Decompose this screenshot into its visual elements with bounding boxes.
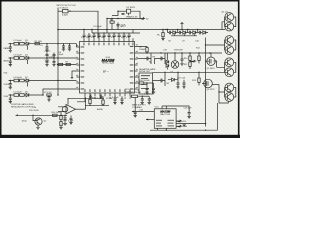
stage1 input cap C11 <box>9 44 12 51</box>
stage3 inductor L4a <box>14 79 19 82</box>
wire bus to P1 <box>210 53 212 57</box>
IC U1 inner pin labels top <box>83 43 133 46</box>
pair1 output link <box>234 17 236 27</box>
IC U2 right pin 1 arrow <box>176 120 181 122</box>
stage4 ground <box>9 102 12 104</box>
bottom main wire <box>16 114 68 116</box>
stage1 series resistor <box>35 43 39 45</box>
svg-text:C22 C23: C22 C23 <box>177 78 186 80</box>
panel box <box>139 73 153 94</box>
R20b out wire <box>144 82 154 84</box>
stage3 wire row <box>9 80 77 82</box>
stage3 drop <box>26 82 28 86</box>
stage1 mid caps junctions <box>63 43 70 44</box>
stage1 diode D3 <box>26 42 29 45</box>
svg-text:R19 100kΩ: R19 100kΩ <box>139 80 150 82</box>
stage1 mid caps b ground <box>68 49 71 51</box>
wire Q3 Q4 bases <box>206 40 228 50</box>
arrow wire into U2 pin2 <box>146 119 155 121</box>
below resistor RD <box>102 100 104 104</box>
svg-text:VGH 28V: VGH 28V <box>174 50 183 52</box>
svg-text:DRIVE OUT: DRIVE OUT <box>139 71 151 73</box>
svg-text:0.22µF: 0.22µF <box>112 97 119 99</box>
below cluster right caps <box>141 96 144 102</box>
arrow head left 2 <box>146 119 148 121</box>
input rail vertical <box>57 30 59 96</box>
resistor R20b inline <box>139 82 144 84</box>
junction pair4 <box>218 91 219 92</box>
wire inductor to LX node <box>68 11 98 22</box>
cap grid C7 <box>53 53 56 58</box>
transistor Q1 <box>225 13 234 22</box>
IC U1 outside pin numbers right <box>136 44 138 87</box>
cap grid C6 <box>46 53 49 58</box>
wire D8 <box>168 72 178 79</box>
svg-text:R20 100kΩ: R20 100kΩ <box>131 92 142 94</box>
svg-text:R1 10Ω: R1 10Ω <box>35 41 43 43</box>
VCC ground <box>47 100 50 102</box>
svg-text:TO PANEL: TO PANEL <box>132 106 143 109</box>
svg-text:REGULATOR OUTPUT: REGULATOR OUTPUT <box>11 105 34 108</box>
below horizontal link <box>85 104 109 106</box>
panel box left stubs <box>138 77 139 90</box>
stage2 input cap C12 <box>9 58 12 65</box>
wire from LX up to diode <box>112 11 118 15</box>
U2 right cap <box>188 110 191 117</box>
U2 top rail to cap <box>162 106 189 110</box>
wire P2 to pair4 link <box>212 84 219 86</box>
divider cap <box>70 116 73 123</box>
svg-text:R15 200Ω: R15 200Ω <box>29 110 39 112</box>
corner L wire <box>72 71 76 78</box>
IC U1 outside pin numbers left <box>76 45 78 88</box>
return wire vertical <box>205 38 207 127</box>
below cap CC2 <box>121 96 124 102</box>
bottom cap C25 <box>64 115 67 123</box>
stage1 out caps C15 C16 <box>46 44 49 50</box>
inline resistor RF2 <box>66 63 70 65</box>
svg-text:Q1 Q2: Q1 Q2 <box>222 12 229 14</box>
inductor L1 <box>63 10 69 13</box>
top bus resistor wires <box>162 30 164 39</box>
bottom wire start arrow <box>16 114 18 116</box>
wire input down <box>57 8 59 30</box>
stage4 junction <box>10 94 11 95</box>
boost diode D2 <box>127 9 131 15</box>
IC U2 right pin 3 arrow <box>176 125 181 127</box>
svg-text:100kΩ: 100kΩ <box>139 49 146 51</box>
transistor Q5 <box>225 58 234 67</box>
capacitor C4 <box>117 25 120 26</box>
stage3 input cap C13 <box>9 81 12 88</box>
cap CT10 <box>128 33 131 38</box>
wire LX down to IC <box>97 22 99 38</box>
ground under caps <box>176 87 185 89</box>
arrow wire into U2 pin <box>132 111 155 113</box>
stage2 drop <box>26 60 28 64</box>
MOSFET N2 <box>158 53 165 64</box>
stage3 ground <box>9 87 12 89</box>
ref junction on rail <box>57 64 58 65</box>
MOSFET N2 gate wire <box>155 59 159 65</box>
transistor Q9 <box>35 118 42 125</box>
transistor Q7 <box>225 83 234 92</box>
right bus <box>138 52 222 54</box>
below-IC wire drop 1 <box>77 96 85 102</box>
diode pair feed <box>166 53 168 70</box>
cap CT7 <box>113 33 116 38</box>
svg-text:MAXIM: MAXIM <box>160 110 171 114</box>
IC U1 inner pin labels right <box>130 46 134 90</box>
op-amp output <box>76 108 86 110</box>
junction input bus <box>57 29 59 31</box>
transistor Q6 <box>225 68 234 77</box>
Q9 emitter ground <box>36 125 39 129</box>
chain cap A ground <box>145 92 148 94</box>
wire P1 to pair2 link <box>214 61 217 67</box>
RE node down cap <box>134 98 136 113</box>
wire RE <box>130 95 142 97</box>
svg-text:10µF: 10µF <box>59 54 65 56</box>
charge pump diode DP2 <box>183 31 188 34</box>
svg-text:C3 0.1µF: C3 0.1µF <box>93 26 102 28</box>
U2 cap ground <box>187 116 190 118</box>
svg-text:R16 1kΩ: R16 1kΩ <box>52 112 61 114</box>
divider cap ground <box>69 123 72 125</box>
cap CT4 <box>98 33 101 38</box>
cap CT6 <box>108 33 111 38</box>
op-amp bubble <box>62 106 68 112</box>
bottom pin outside labels <box>95 97 131 99</box>
charge pump cap CP3 <box>188 31 193 34</box>
below caps ground <box>113 103 123 105</box>
junction loop caps <box>90 98 102 99</box>
svg-text:10µF: 10µF <box>45 60 51 62</box>
cp unit2 bus tap <box>187 30 189 33</box>
MOSFET P2 circle <box>202 79 212 88</box>
below cluster cap2 <box>148 96 151 102</box>
MOSFET N1 gate wire <box>138 58 144 60</box>
cap CT9 <box>123 33 126 38</box>
charge pump diode DP3 <box>193 31 198 34</box>
inductor circle T1 <box>171 61 179 69</box>
wire N3 drain up <box>153 71 225 73</box>
wire Q5 Q6 bases <box>217 62 228 72</box>
svg-text:VON: VON <box>4 96 9 98</box>
cap CT2 <box>88 33 91 38</box>
divider ground <box>59 128 62 130</box>
svg-text:L4 10µH: L4 10µH <box>14 77 22 79</box>
IC U1 inner pin labels bottom <box>84 89 130 92</box>
stage2 ground <box>9 65 12 67</box>
frame border <box>1 1 239 136</box>
IC U1 left pin stubs <box>76 47 79 89</box>
junction pair2 return <box>205 44 206 45</box>
IC U1 top pin stubs <box>84 38 133 41</box>
pair3 output link <box>234 62 236 72</box>
bottom junction 1 <box>32 115 33 116</box>
IC U1 inner pin labels left <box>81 46 85 89</box>
chain cap B <box>152 83 155 92</box>
svg-text:MAX17126: MAX17126 <box>160 113 171 116</box>
charge pump diode DP4 <box>203 31 208 34</box>
divider tap arrow <box>190 60 196 62</box>
wire diode to VMAIN <box>131 11 140 18</box>
svg-text:3 CELLS: 3 CELLS <box>60 7 69 9</box>
IC U2 right pin 2 long wire <box>176 123 205 125</box>
U2 bottom pin stubs <box>158 128 167 130</box>
cp lower rail <box>171 35 197 37</box>
wire RD <box>102 96 104 105</box>
stage1 wire to rail <box>47 44 76 47</box>
wire R8 <box>138 47 147 54</box>
wire cluster link <box>142 95 149 97</box>
stage4 inductor L5b <box>20 94 25 97</box>
junction inductor out <box>69 11 70 12</box>
bottom cap ground <box>63 123 66 125</box>
wire pair4 loop <box>219 85 228 104</box>
op-amp inputs <box>58 107 66 112</box>
bottom return rail <box>150 129 218 131</box>
svg-text:100kΩ: 100kΩ <box>125 91 132 93</box>
arrow head left <box>132 111 134 113</box>
cap CT1 <box>83 30 86 39</box>
junction dots on top bus <box>83 29 166 34</box>
diode D8 <box>172 78 175 81</box>
stage3 junction <box>10 80 11 81</box>
RE node cap ground <box>134 116 137 118</box>
wire diode left <box>118 10 127 12</box>
cap grid C8 <box>46 58 49 65</box>
cap grid ground <box>45 65 55 67</box>
capacitor C2 top right <box>122 14 125 15</box>
junction stage1 bus <box>46 43 47 44</box>
input rail junctions <box>57 43 58 96</box>
cap CT5 <box>103 33 106 38</box>
svg-text:6.8µH: 6.8µH <box>62 15 68 17</box>
VMAIN rail <box>107 18 140 20</box>
svg-text:D2 SS23: D2 SS23 <box>127 7 136 9</box>
stage3 diode D5 <box>26 79 29 82</box>
svg-text:PANEL: PANEL <box>4 47 12 50</box>
cap C20 ground <box>180 64 183 66</box>
wire RC <box>89 96 91 105</box>
IC U2 pin rows <box>156 120 174 127</box>
cap C22 <box>177 80 180 87</box>
svg-text:AGND: AGND <box>97 108 104 111</box>
resistor R11 <box>189 62 191 66</box>
transistor Q4 <box>225 46 234 55</box>
loop cap CV1 <box>89 95 92 98</box>
cap C23 <box>183 80 186 87</box>
below resistor RC <box>89 99 91 103</box>
stage2 inductor L3a <box>14 57 19 60</box>
stage1 mid caps a ground <box>62 49 65 51</box>
top bus resistor cluster <box>162 33 164 37</box>
panel box inner marks <box>141 75 150 89</box>
transistor Q8 <box>225 93 234 102</box>
junction right bus <box>146 52 210 53</box>
transistor Q3 <box>225 36 234 45</box>
svg-text:Q6 2222: Q6 2222 <box>207 89 216 91</box>
corner mark <box>71 78 73 79</box>
MOSFET N3 gate wire <box>153 80 159 82</box>
IC U2 top pin b <box>165 106 167 109</box>
resistor R3 top <box>110 21 114 23</box>
svg-text:L5 10µH: L5 10µH <box>14 92 22 94</box>
stage1 mid caps a <box>62 44 65 49</box>
wire Q7 Q8 bases <box>219 88 228 98</box>
svg-text:10kΩ: 10kΩ <box>22 121 27 123</box>
stage2 inductor L3b <box>20 57 25 60</box>
cap CT8 <box>118 33 121 38</box>
ref wire to IC pin <box>58 64 77 66</box>
cap C20 <box>181 53 184 63</box>
stage1 drop to stage2 <box>26 45 28 49</box>
stage1 junction <box>10 43 11 44</box>
charge pump cap CP4 <box>198 31 203 34</box>
below resistor RE <box>132 95 138 97</box>
wire R13 <box>198 72 200 85</box>
svg-text:C6 C7: C6 C7 <box>45 51 52 53</box>
RE node cap <box>134 112 137 115</box>
pair2 output link <box>234 40 236 50</box>
cp unit3 bus tap <box>197 30 199 33</box>
svg-text:POSITIVE GATE-DRIVE: POSITIVE GATE-DRIVE <box>11 103 34 106</box>
stage1 ground <box>9 50 12 52</box>
stage3 inductor L4b <box>20 79 25 82</box>
R20b junction <box>146 82 147 83</box>
wire R10 R11 <box>189 53 191 69</box>
VCC series box <box>47 94 51 96</box>
cp unit1 bus tap <box>168 30 178 33</box>
stage4 diode D6 <box>26 93 29 96</box>
IC U1 bottom pin stubs <box>85 93 130 96</box>
RE junction <box>142 96 143 97</box>
stage4 input cap C14 <box>9 95 12 102</box>
IC U2 top pin a <box>161 106 163 109</box>
svg-text:C26 1µF: C26 1µF <box>184 108 193 110</box>
top bus resistor ground <box>161 39 164 41</box>
junction 2 <box>64 115 65 116</box>
MOSFET N3 <box>158 72 165 86</box>
top main bus <box>58 29 226 31</box>
stage1 mid caps b <box>68 44 71 49</box>
resistor R10 <box>189 56 191 60</box>
junction ladder <box>162 29 198 30</box>
svg-text:EP —: EP — <box>103 72 110 74</box>
stage1 inductor L2a <box>14 42 19 45</box>
svg-text:L2 10µH: L2 10µH <box>14 40 22 42</box>
pair4 loop drop <box>217 103 219 130</box>
decoupling row above IC: sub rail <box>92 32 140 34</box>
diode pair D7b <box>166 64 169 67</box>
stage1 wire row <box>9 43 48 45</box>
junction feedback <box>85 98 86 99</box>
divider resistor RA <box>60 116 62 120</box>
IC U1 MAX17126 outline <box>80 42 135 94</box>
IC U2 outline <box>154 109 176 129</box>
op-amp A1 <box>66 105 76 114</box>
inline resistor RF1 <box>58 63 62 65</box>
bottom right ground <box>183 123 186 127</box>
svg-text:Q5 3055: Q5 3055 <box>207 68 216 70</box>
svg-text:AVDD: AVDD <box>4 60 10 63</box>
svg-text:VOFF: VOFF <box>4 84 10 86</box>
stage1 inductor L2b <box>20 42 25 45</box>
resistor R16 inline <box>53 114 58 116</box>
pair4 output link <box>234 88 236 98</box>
loop cap CV2 polarized <box>100 95 103 98</box>
below cluster grounds <box>141 102 151 104</box>
IC U1 right pin stubs <box>135 47 138 90</box>
stage2 wire row <box>9 57 77 59</box>
cap grid C9 <box>53 58 56 65</box>
wire Q1 Q2 base link <box>222 17 228 30</box>
VGH stub symbol <box>181 22 184 29</box>
cp lower rail drops <box>175 34 195 36</box>
resistor R13 <box>198 78 200 82</box>
cp out wire <box>207 32 209 34</box>
R20 chain wire from pin <box>138 82 140 84</box>
resistor R8 vertical <box>146 48 148 52</box>
stage2 junction <box>10 57 11 58</box>
VCC cap <box>48 95 51 100</box>
stage1 out ground <box>45 50 48 52</box>
cap CT3 <box>93 33 96 38</box>
charge pump cap CP2 <box>178 31 183 34</box>
sub rail riser <box>92 30 133 34</box>
divider wires <box>60 112 62 128</box>
svg-text:VIN: VIN <box>33 107 37 109</box>
divider resistor RB <box>60 122 62 126</box>
feedback loop <box>68 98 86 109</box>
junction dots vmain <box>106 11 118 20</box>
chain cap B ground <box>152 92 155 94</box>
svg-text:L3 10µH: L3 10µH <box>14 55 22 57</box>
wire stage4 up to IC <box>43 89 76 95</box>
junction stage4 <box>42 94 43 95</box>
MOSFET N1 <box>144 53 151 64</box>
chain cap A <box>146 83 149 92</box>
charge pump cap CP1 <box>168 31 173 34</box>
wire R12 <box>198 53 200 63</box>
wire VMAIN down leg <box>106 19 108 30</box>
junction stage2 caps <box>46 57 54 58</box>
wire R3 leg <box>112 19 118 30</box>
junction below <box>89 105 103 106</box>
svg-text:VCC: VCC <box>155 107 160 109</box>
wire to Q9 <box>33 115 37 120</box>
resistor R12 <box>198 56 200 60</box>
return rail junctions <box>166 123 207 131</box>
background texture <box>0 0 240 138</box>
below cap CC1 <box>114 96 117 102</box>
charge pump diode DP1 <box>173 31 178 34</box>
junction divider on line <box>60 115 61 116</box>
svg-text:VMAIN 4.6V: VMAIN 4.6V <box>126 16 138 19</box>
wire bus to T1 <box>174 53 176 61</box>
stage2 diode D4 <box>26 56 29 59</box>
drain line junctions <box>164 72 199 73</box>
MOSFET P1 circle <box>205 57 215 65</box>
transistor Q2 <box>225 22 234 31</box>
wire input to inductor <box>58 10 63 12</box>
stage4 wire row <box>9 94 44 96</box>
diode pair D7a <box>166 60 169 63</box>
svg-text:MAX17126: MAX17126 <box>102 62 114 65</box>
VMAIN output arrow <box>140 18 145 20</box>
